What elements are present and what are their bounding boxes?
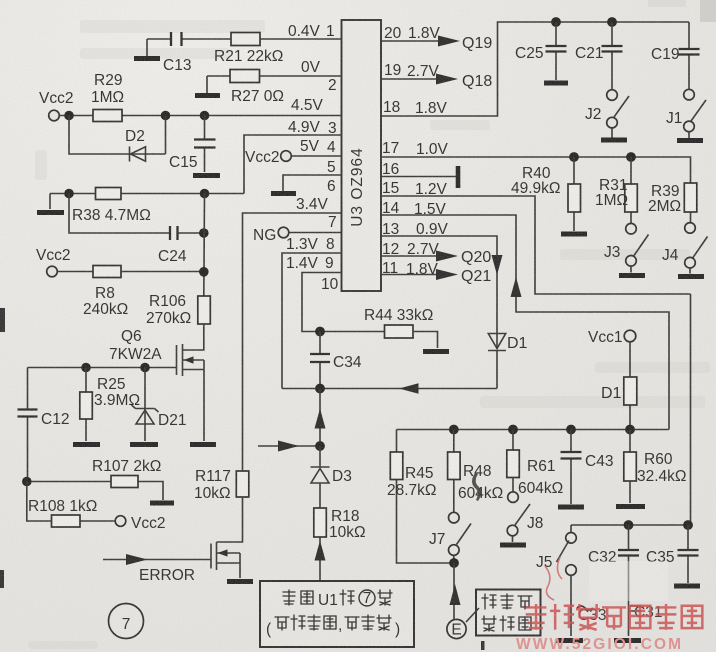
svg-text:U1: U1	[318, 592, 338, 609]
wire R107 row	[27, 482, 163, 501]
svg-text:2: 2	[328, 77, 337, 94]
capacitor C13	[163, 32, 191, 74]
ground (C35)	[674, 584, 700, 589]
svg-text:J7: J7	[429, 531, 445, 548]
wire R18 to box with up arrow	[315, 537, 326, 581]
svg-text:D21: D21	[158, 412, 186, 429]
wire pin16 stub with bar	[381, 166, 458, 188]
svg-text:Vcc1: Vcc1	[588, 329, 622, 346]
ground (R107)	[150, 501, 174, 506]
junction (C32 top)	[624, 520, 634, 530]
svg-text:7KW2A: 7KW2A	[109, 346, 162, 363]
node Vcc2 (R29 row)	[39, 90, 73, 121]
svg-text:270kΩ: 270kΩ	[146, 310, 191, 327]
svg-text:Vcc2: Vcc2	[245, 149, 279, 166]
ground (C25)	[544, 81, 568, 86]
junction (D3 top node)	[315, 441, 325, 451]
svg-text:5V: 5V	[300, 138, 320, 155]
svg-text:R44 33kΩ: R44 33kΩ	[364, 307, 433, 324]
white patch behind C32/C35 labels	[589, 561, 668, 601]
junction (R48 top)	[449, 425, 459, 435]
wire pin2 net (R27 row)	[207, 76, 342, 93]
junction (C34 bottom)	[315, 384, 325, 394]
svg-text:15: 15	[382, 180, 399, 197]
svg-text:1.8V: 1.8V	[406, 261, 439, 278]
resistor R39	[648, 183, 697, 223]
ground (J2)	[601, 138, 627, 143]
svg-text:D2: D2	[125, 128, 145, 145]
svg-text:R18: R18	[331, 508, 359, 525]
callout box (dimming voltage interface)	[466, 590, 541, 651]
junction (D2 right)	[161, 111, 171, 121]
svg-text:C15: C15	[169, 154, 197, 171]
ground (J5/C33)	[556, 638, 583, 643]
svg-text:D1: D1	[507, 335, 528, 352]
svg-text:C13: C13	[163, 57, 191, 74]
wire C32/C35 sub-rail	[571, 524, 690, 526]
svg-text:R106: R106	[149, 293, 186, 310]
op-amp/controller IC U3 OZ964 body	[342, 20, 382, 291]
wire pin12 with arrow to Q20	[381, 249, 491, 266]
wire pin11 with arrow to Q21	[381, 268, 491, 285]
svg-text:Q19: Q19	[462, 35, 492, 52]
svg-text:32.4kΩ: 32.4kΩ	[637, 468, 687, 485]
resistor R106	[146, 293, 210, 327]
svg-text:2.7V: 2.7V	[407, 63, 440, 80]
capacitor C12	[18, 368, 70, 482]
capacitor C19	[651, 22, 700, 89]
junction (C21 top)	[607, 17, 617, 27]
svg-text:Q20: Q20	[461, 249, 491, 266]
capacitor C43	[561, 430, 614, 505]
svg-text:R25: R25	[97, 376, 125, 393]
svg-text:240kΩ: 240kΩ	[83, 301, 128, 318]
wire E node riser with up arrow	[450, 563, 461, 619]
ground (R38)	[37, 210, 64, 215]
wire pin18 up to top rail	[381, 22, 689, 116]
pin 14 number+voltage label	[382, 200, 447, 218]
pin 4 number+voltage label	[300, 138, 336, 156]
wire R44 to ground	[413, 332, 438, 349]
diode D3	[311, 446, 352, 508]
svg-text:C34: C34	[333, 354, 362, 371]
svg-text:7: 7	[363, 590, 372, 607]
svg-text:R107 2kΩ: R107 2kΩ	[92, 458, 161, 475]
junction (R8 right)	[199, 267, 209, 277]
resistor R31	[595, 157, 637, 223]
wire 4.5V net to pin 3 area	[59, 97, 341, 116]
svg-text:Vcc2: Vcc2	[36, 247, 70, 264]
ground (ERROR mosfet source)	[227, 579, 253, 584]
transistor Q (ERROR mosfet)	[211, 542, 240, 578]
junction (Vcc2/R29)	[64, 111, 74, 121]
junction (R40 top)	[569, 152, 579, 162]
ground (J8)	[500, 543, 526, 548]
node NG bubble and wire pin NG	[253, 227, 342, 244]
jumper J4	[662, 223, 708, 274]
ground (J1)	[677, 138, 703, 143]
svg-text:C24: C24	[158, 248, 187, 265]
svg-text:E: E	[451, 622, 461, 639]
svg-text:R45: R45	[405, 465, 433, 482]
resistor R27	[230, 70, 284, 106]
pin 19 number+voltage label	[384, 62, 440, 80]
pin 1 number+voltage label	[288, 23, 335, 40]
svg-text:J4: J4	[662, 247, 679, 264]
resistor R18	[314, 508, 366, 541]
svg-text:(: (	[266, 621, 272, 638]
svg-text:5: 5	[327, 159, 336, 176]
node E (dimming input bubble)	[447, 619, 466, 638]
resistor R44	[364, 307, 433, 338]
svg-text:4.5V: 4.5V	[291, 97, 324, 114]
capacitor C32	[588, 525, 639, 636]
svg-text:,: ,	[338, 617, 342, 634]
capacitor C33 label (obscured)	[577, 606, 606, 624]
ground (R44)	[423, 349, 449, 354]
svg-text:16: 16	[382, 161, 399, 178]
svg-text:R29: R29	[94, 72, 122, 89]
resistor R61	[507, 430, 563, 498]
wire ERROR with arrow	[103, 554, 211, 584]
capacitor C15	[169, 116, 216, 173]
wire stub with right arrow into D3 node	[258, 441, 320, 452]
resistor R108	[28, 498, 97, 527]
ground (Q6 source)	[190, 442, 216, 447]
note box (comes from U1 pin 7, unused)	[260, 581, 414, 647]
junction (R25 top)	[81, 363, 91, 373]
jumper J8	[507, 492, 543, 542]
wire Q6 gate row	[28, 367, 177, 369]
svg-text:1.3V: 1.3V	[286, 236, 319, 253]
capacitor C35	[646, 525, 699, 583]
svg-text:Q6: Q6	[121, 328, 142, 345]
pin 2 number label	[301, 59, 337, 94]
svg-text:Vcc2: Vcc2	[39, 90, 73, 107]
diode D1	[488, 334, 528, 389]
wire pin17 rail2	[381, 157, 691, 183]
svg-text:C21: C21	[575, 45, 603, 62]
svg-text:1.8V: 1.8V	[415, 100, 448, 117]
junction (R38 right / x204 bus top)	[200, 189, 210, 199]
wire pin8 down-left path to C34 node row	[282, 253, 342, 389]
ground (R60)	[616, 504, 645, 509]
resistor R60	[624, 430, 687, 504]
wire pin19 with arrow to Q18	[381, 73, 492, 90]
ground (D21)	[130, 442, 158, 447]
svg-text:3.4V: 3.4V	[296, 196, 329, 213]
transistor Q6 7KW2A (MOSFET)	[109, 328, 204, 441]
svg-text:J5: J5	[536, 554, 552, 571]
svg-text:10: 10	[321, 276, 339, 293]
svg-text:9: 9	[325, 255, 334, 272]
wire C34 node down to D3 node with up arrow	[315, 389, 326, 447]
svg-text:49.9kΩ: 49.9kΩ	[511, 180, 561, 197]
node Vcc1	[588, 329, 636, 346]
red pen squiggle near J5	[545, 557, 562, 600]
svg-text:4.9V: 4.9V	[288, 119, 321, 136]
junction (R38 left)	[64, 189, 74, 199]
pin 7 number label	[328, 214, 337, 231]
svg-text:1.4V: 1.4V	[286, 255, 319, 272]
svg-text:WWW.52GIOI.COM: WWW.52GIOI.COM	[516, 636, 683, 652]
svg-text:10kΩ: 10kΩ	[329, 524, 366, 541]
svg-text:): )	[395, 621, 400, 638]
ground (J4)	[678, 274, 704, 279]
resistor R40	[511, 157, 581, 231]
resistor D1 (mislabeled rectifier)	[601, 342, 637, 430]
junction (C25 top)	[551, 17, 561, 27]
svg-text:R108 1kΩ: R108 1kΩ	[28, 498, 97, 515]
jumper J2	[585, 90, 629, 138]
ground (R40)	[561, 232, 587, 237]
svg-text:ERROR: ERROR	[139, 567, 195, 584]
pin 5 number label	[327, 159, 336, 176]
wire J5 to bottom ground	[570, 575, 572, 636]
junction (R31 top)	[626, 152, 636, 162]
pin 18 number+voltage label	[383, 99, 448, 117]
svg-text:20: 20	[384, 25, 402, 42]
svg-text:8: 8	[326, 236, 335, 253]
node Vcc2 (R8 row)	[36, 247, 70, 277]
svg-text:1.8V: 1.8V	[408, 25, 441, 42]
junction (R61 top)	[508, 425, 518, 435]
svg-text:1MΩ: 1MΩ	[91, 89, 124, 106]
capacitor C21	[575, 22, 623, 90]
svg-text:J3: J3	[604, 244, 620, 261]
svg-text:R60: R60	[644, 451, 673, 468]
wire pin4 from Vcc2 bubble	[291, 155, 341, 157]
pin 17 number+voltage label	[382, 140, 449, 158]
svg-text:C43: C43	[585, 453, 613, 470]
junction (D21 top)	[140, 363, 150, 373]
node Vcc2 (R108)	[115, 515, 165, 532]
wire bottom rail	[397, 429, 670, 431]
wire C34 bottom row with left arrow (from D1 to pin8 bus)	[282, 383, 497, 393]
svg-text:10kΩ: 10kΩ	[194, 485, 231, 502]
junction (C35 top / right bus bottom)	[683, 520, 693, 530]
jumper J5	[536, 525, 576, 575]
node Vcc2 (pin 4)	[245, 149, 291, 166]
svg-text:R21 22kΩ: R21 22kΩ	[214, 48, 283, 65]
jumper J7	[429, 512, 471, 563]
pin 9 number+voltage label	[286, 255, 334, 272]
pin 15 number+voltage label	[382, 180, 448, 198]
ground (R27)	[195, 93, 220, 98]
pin 11 number+voltage label	[382, 260, 439, 278]
svg-text:4: 4	[327, 139, 336, 156]
svg-text:1.0V: 1.0V	[416, 141, 449, 158]
junction (D1/R60 rail)	[625, 425, 635, 435]
wire R8 row	[57, 271, 204, 273]
svg-text:19: 19	[384, 62, 401, 79]
svg-text:7: 7	[122, 616, 131, 633]
capacitor C31 label (obscured)	[630, 604, 662, 621]
wire R108 row	[27, 482, 115, 522]
pin 8 number+voltage label	[286, 236, 335, 253]
resistor R45	[387, 430, 454, 564]
svg-text:R27 0Ω: R27 0Ω	[231, 88, 284, 105]
junction (C24 right on x204 bus)	[199, 228, 209, 238]
svg-text:17: 17	[382, 140, 399, 157]
pin 10 number label	[321, 276, 339, 293]
svg-text:R38 4.7MΩ: R38 4.7MΩ	[72, 207, 151, 224]
capacitor C24	[158, 226, 187, 265]
ground (pin 5)	[271, 191, 296, 196]
svg-text:C19: C19	[651, 46, 679, 63]
svg-text:U3 OZ964: U3 OZ964	[349, 147, 366, 227]
junction (C15 top)	[200, 111, 210, 121]
wire R117 to error mosfet drain	[217, 497, 243, 542]
diode D2 branch wire	[69, 116, 166, 155]
ground (C32/C31)	[614, 638, 641, 643]
svg-text:R48: R48	[463, 463, 491, 480]
capacitor C34	[310, 332, 362, 389]
junction (J7/R45/E node)	[449, 558, 459, 568]
junction (C12/R107)	[22, 477, 32, 487]
svg-text:R117: R117	[195, 468, 231, 485]
node circled 7 (sheet marker)	[109, 604, 144, 639]
pin 20 number+voltage label	[384, 25, 441, 42]
resistor R21	[214, 33, 283, 66]
svg-text:Vcc2: Vcc2	[131, 515, 165, 532]
jumper J3	[604, 223, 649, 272]
pin 16 number label	[382, 161, 399, 178]
junction (C43 top)	[566, 425, 576, 435]
svg-text:D3: D3	[332, 468, 352, 485]
wire C24 row	[69, 194, 204, 234]
junction (C34 top / R44 row)	[315, 327, 325, 337]
svg-text:Q21: Q21	[461, 268, 491, 285]
svg-text:J1: J1	[666, 110, 682, 127]
resistor R8	[83, 266, 128, 319]
svg-text:7: 7	[328, 214, 337, 231]
resistor R25	[80, 368, 140, 442]
svg-text:D1: D1	[601, 385, 622, 402]
jumper J1	[666, 89, 706, 138]
capacitor C25	[515, 22, 567, 80]
wire R38 row joining pin 3	[50, 135, 342, 209]
svg-text:R8: R8	[95, 285, 115, 302]
svg-text:6: 6	[327, 178, 336, 195]
svg-text:J8: J8	[527, 515, 543, 532]
svg-text:0.4V: 0.4V	[288, 23, 321, 40]
ground (C13)	[134, 56, 160, 61]
pin 12 number+voltage label	[382, 241, 440, 258]
wire pin1 net (C13/R21 row)	[147, 39, 342, 56]
svg-text:18: 18	[383, 99, 400, 116]
svg-text:1: 1	[326, 23, 335, 40]
wire pin15 down and right to right bus	[381, 196, 691, 525]
ground (C15)	[193, 173, 220, 178]
svg-text:Q18: Q18	[462, 73, 492, 90]
ink blotch artifact over R48 label	[472, 473, 481, 501]
svg-text:1MΩ: 1MΩ	[595, 192, 628, 209]
resistor R29	[91, 72, 124, 122]
wire pin20 with arrow to Q19	[381, 35, 492, 52]
wire pin14 down and right to bottom rail with up-arrow	[381, 215, 669, 430]
svg-text:0V: 0V	[301, 59, 321, 76]
svg-text:R61: R61	[527, 458, 555, 475]
resistor R48	[448, 430, 504, 513]
ground (J3)	[619, 273, 645, 278]
ground (R25)	[73, 442, 100, 447]
resistor R38	[72, 188, 151, 225]
svg-text:NG: NG	[253, 227, 276, 244]
zener diode D21	[132, 368, 187, 442]
svg-text:604kΩ: 604kΩ	[518, 480, 563, 497]
svg-text:C25: C25	[515, 45, 543, 62]
svg-text:2MΩ: 2MΩ	[648, 198, 681, 215]
wire x204 bus (R38 row to R106)	[203, 194, 206, 297]
wire pin13 down with down-arrow to D1	[381, 236, 503, 349]
wire pin7 long vertical bus to R117	[243, 213, 342, 471]
ground (C43)	[558, 505, 584, 510]
wire pin5 to ground	[283, 175, 342, 191]
resistor R117	[194, 468, 249, 502]
svg-text:J2: J2	[585, 106, 601, 123]
scanner edge marks left	[0, 308, 5, 332]
wire R106 to Q6 drain	[183, 324, 204, 350]
watermark row 1 (red chars)	[526, 604, 703, 630]
wire pin9 down path to R44 row	[302, 273, 385, 332]
svg-text:28.7kΩ: 28.7kΩ	[387, 482, 437, 499]
resistor R107	[92, 458, 161, 488]
pin 3 number+voltage label	[288, 119, 337, 137]
svg-text:C12: C12	[41, 411, 69, 428]
pin 13 number+voltage label	[382, 221, 449, 238]
diode D2	[125, 128, 146, 162]
pin 6 number label	[296, 178, 336, 213]
